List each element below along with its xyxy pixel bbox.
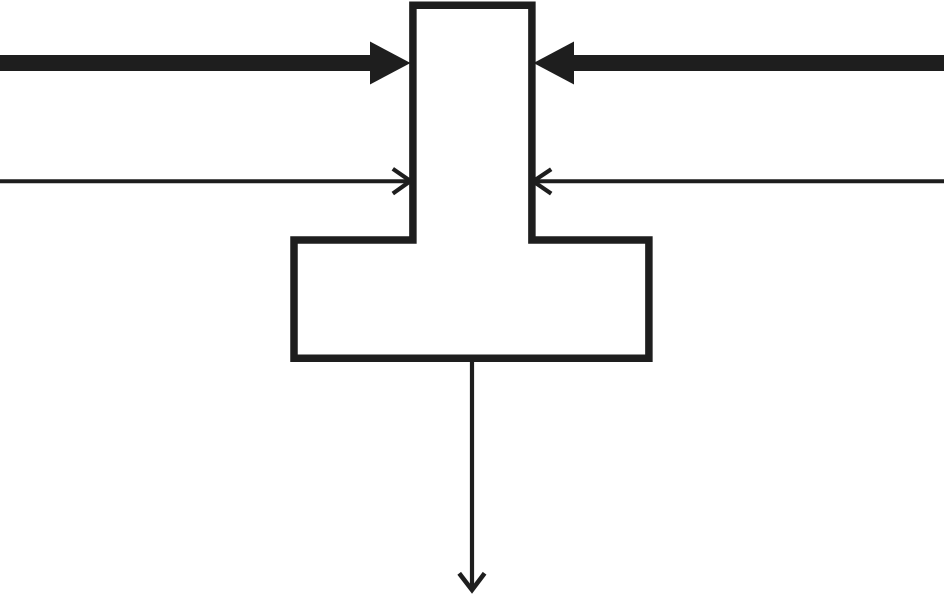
thick right load arrow shaft [572,55,944,71]
thick left load arrow shaft [0,55,374,71]
thin left arrowhead chevron [393,169,411,194]
thick left load arrowhead [370,42,411,85]
downward reaction arrowhead chevron [459,573,484,590]
T-shaped column-on-base outline [294,5,649,358]
thin left arrow line [0,179,409,183]
thin right arrowhead chevron [533,169,551,193]
downward reaction arrow line [470,357,474,588]
thin right arrow line [533,179,944,183]
thick right load arrowhead [534,42,575,85]
